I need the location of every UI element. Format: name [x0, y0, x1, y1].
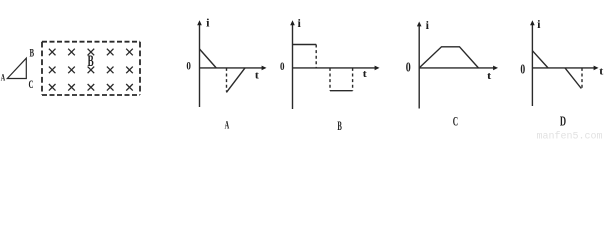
svg-text:B: B — [337, 119, 342, 133]
svg-text:A: A — [1, 74, 5, 84]
svg-text:A: A — [225, 118, 230, 132]
svg-text:B: B — [30, 48, 35, 60]
svg-text:t: t — [599, 65, 604, 77]
svg-text:manfen5.com: manfen5.com — [537, 131, 603, 141]
svg-text:t: t — [363, 68, 368, 80]
svg-text:i: i — [537, 17, 541, 31]
svg-text:0: 0 — [406, 60, 411, 75]
svg-text:i: i — [298, 16, 302, 30]
svg-text:t: t — [255, 69, 260, 81]
svg-text:0: 0 — [280, 59, 285, 73]
svg-text:0: 0 — [520, 63, 525, 78]
svg-text:C: C — [29, 79, 34, 91]
svg-text:D: D — [560, 113, 566, 128]
svg-text:C: C — [453, 114, 458, 129]
svg-text:i: i — [206, 16, 210, 30]
svg-text:i: i — [426, 18, 430, 32]
svg-text:t: t — [487, 70, 492, 82]
svg-text:0: 0 — [186, 59, 191, 73]
svg-text:B: B — [88, 53, 94, 70]
